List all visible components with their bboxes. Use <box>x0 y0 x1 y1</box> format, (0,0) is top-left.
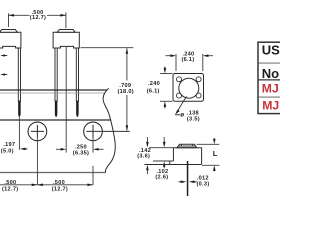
svg-text:L: L <box>213 149 218 158</box>
profile actuator inner ticks <box>178 144 196 146</box>
dimension .142: up arrow below bottom ext <box>146 165 149 171</box>
svg-text:ø: ø <box>180 112 184 118</box>
svg-text:US: US <box>262 43 280 58</box>
cropped dimension arrow mid-left <box>0 73 7 75</box>
switch S1 actuator <box>0 30 17 33</box>
dimension .197 text <box>1 142 16 154</box>
switch S1 body (cropped at left edge) <box>0 32 21 48</box>
svg-text:(3.6): (3.6) <box>137 153 150 159</box>
dimension .142: down arrow above top ext <box>146 137 148 142</box>
extension line at switch1 center <box>7 13 9 27</box>
table row lines <box>259 62 280 64</box>
hole H2 centerline <box>92 138 94 153</box>
svg-text:(0.3): (0.3) <box>196 181 209 187</box>
svg-text:(12.7): (12.7) <box>30 15 46 21</box>
svg-text:(2.6): (2.6) <box>155 174 168 180</box>
top view: .240 (6.1) horizontal dim extension lines <box>166 54 214 71</box>
leader line for hole diameter <box>177 96 187 112</box>
svg-text:MJ: MJ <box>262 99 279 113</box>
dimension .709 text <box>117 83 133 95</box>
dimension .102 (2.6) text <box>155 169 168 181</box>
svg-text:.240: .240 <box>148 81 160 87</box>
profile body <box>170 148 202 165</box>
table border <box>258 42 284 113</box>
profile base bottom edge + .142 lower extension line <box>145 164 202 166</box>
svg-text:(18.0): (18.0) <box>117 89 133 95</box>
PCB top line <box>0 89 107 91</box>
switch S2 centerline <box>65 47 67 153</box>
dimension .709: vertical dim line + arrows <box>126 48 128 130</box>
arrow at hole2 centerline <box>87 184 93 187</box>
svg-text:MJ: MJ <box>262 81 279 95</box>
switch S1 right pin <box>18 48 21 117</box>
svg-text:(5.0): (5.0) <box>1 148 14 154</box>
dimension .197 arrow <box>20 148 26 151</box>
switch S2 body <box>53 32 79 48</box>
svg-text:(6.1): (6.1) <box>181 57 194 63</box>
svg-text:(3.5): (3.5) <box>187 117 200 123</box>
.012 (0.3) text <box>196 175 209 187</box>
dimension .500 (12.7) top: text <box>30 10 46 21</box>
svg-text:.250: .250 <box>75 144 87 150</box>
mounting hole H2 <box>84 122 103 141</box>
dimension .102: down arrow at top ext <box>163 137 165 142</box>
corner hole A <box>177 77 182 82</box>
top view: .240 (6.1) top text <box>181 51 194 63</box>
lower view top edge <box>0 119 111 121</box>
top view body square <box>173 74 204 102</box>
dimension .709 (18.0): top extension line <box>81 47 134 49</box>
bottom .500 (12.7) left text <box>2 180 18 193</box>
switch S2 left pin <box>55 48 58 117</box>
bottom dimension line .500/.500 <box>0 184 93 186</box>
svg-text:No: No <box>262 66 279 81</box>
extension line at switch2 center <box>65 12 67 28</box>
corner hole C <box>177 93 182 98</box>
dimension .197 (5.0): extension line <box>18 117 20 150</box>
hole H1 centerline <box>36 138 38 185</box>
mounting hole H1 <box>28 122 47 141</box>
.142 upper extension line (body top extended) <box>149 147 173 149</box>
back-to-back arrows at hole1 centerline <box>32 184 38 187</box>
svg-text:.197: .197 <box>3 142 15 148</box>
dimension .250 text <box>73 144 89 156</box>
L dimension extension lines <box>197 138 220 171</box>
svg-text:(12.7): (12.7) <box>2 187 18 193</box>
dimension .142 (3.6) text <box>137 148 151 159</box>
dimension .250 (6.35): left arrow <box>56 148 62 150</box>
corner hole D <box>196 93 201 98</box>
svg-text:.500: .500 <box>53 180 65 186</box>
hole H1 cross <box>31 125 44 138</box>
diameter .138 (3.5) text <box>180 111 200 123</box>
lower view bottom edge <box>0 172 106 174</box>
corner hole B <box>196 77 201 82</box>
switch S2 actuator <box>57 30 75 33</box>
center actuator circle <box>179 78 199 98</box>
.012 (0.3) pin thickness arrows <box>179 181 182 183</box>
svg-text:(6.1): (6.1) <box>147 89 160 95</box>
hole H2 cross + .709 lower extension <box>86 125 129 138</box>
.102 lower extension line (step edge extended) <box>153 160 173 162</box>
break line S-curve <box>103 88 115 172</box>
svg-text:(6.35): (6.35) <box>73 150 89 156</box>
PCB bottom line <box>0 92 105 94</box>
bottom .500 (12.7) right text <box>52 180 68 193</box>
dimension .102: up arrow at lower ext <box>163 161 166 167</box>
profile pin <box>187 161 189 196</box>
cropped dimension arrow upper-left <box>0 54 7 56</box>
svg-text:.500: .500 <box>4 180 16 186</box>
svg-text:(12.7): (12.7) <box>52 187 68 193</box>
switch S2 right pin <box>76 48 79 117</box>
top view: .240 (6.1) left text <box>147 81 160 94</box>
top view: .240 (6.1) vertical dim extension lines <box>160 67 173 109</box>
dimension .500 top: dim line + arrows <box>8 14 65 16</box>
profile actuator <box>177 144 197 147</box>
dimension .250 right arrow <box>93 148 99 151</box>
